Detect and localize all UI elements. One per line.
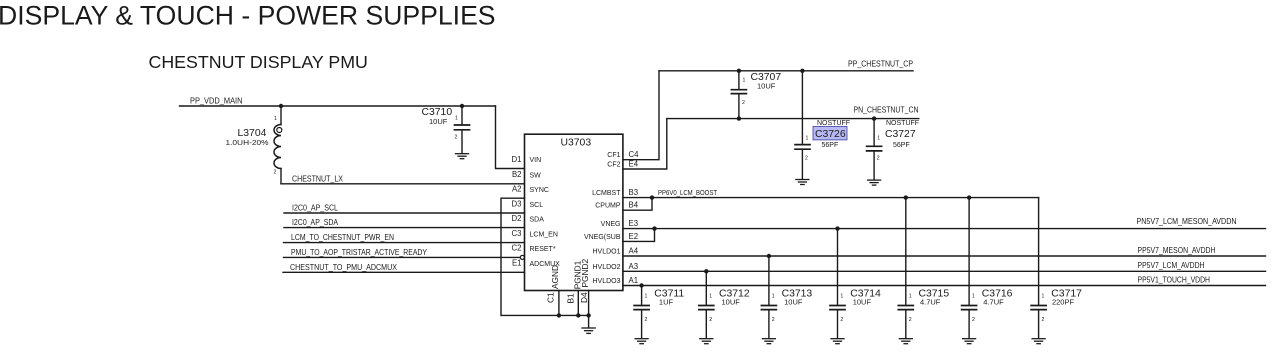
- svg-text:1: 1: [806, 136, 809, 142]
- svg-text:PP_VDD_MAIN: PP_VDD_MAIN: [190, 96, 243, 106]
- svg-text:56PF: 56PF: [893, 142, 910, 149]
- pin A2 SYNC: [501, 185, 589, 316]
- svg-text:C2: C2: [512, 244, 522, 253]
- wire PGND2 down: [588, 291, 590, 316]
- svg-text:NOSTUFF: NOSTUFF: [817, 120, 850, 127]
- capacitor C3707: [731, 71, 781, 119]
- svg-text:PN_CHESTNUT_CN: PN_CHESTNUT_CN: [854, 104, 919, 114]
- svg-text:2: 2: [909, 317, 912, 323]
- svg-text:PP_CHESTNUT_CP: PP_CHESTNUT_CP: [848, 58, 913, 68]
- svg-text:E3: E3: [629, 219, 639, 228]
- svg-text:B1: B1: [566, 293, 576, 304]
- node PMU_TO_AOP_TRISTAR_ACTIVE_READY: [284, 247, 521, 257]
- svg-text:U3703: U3703: [561, 138, 592, 149]
- svg-text:2: 2: [840, 317, 843, 323]
- svg-text:DISPLAY & TOUCH - POWER SUPPLI: DISPLAY & TOUCH - POWER SUPPLIES: [0, 1, 496, 31]
- svg-text:RESET*: RESET*: [530, 246, 556, 253]
- svg-text:10UF: 10UF: [784, 298, 803, 307]
- node PP_CHESTNUT_CP: [659, 58, 913, 73]
- svg-text:PMU_TO_AOP_TRISTAR_ACTIVE_READ: PMU_TO_AOP_TRISTAR_ACTIVE_READY: [291, 247, 427, 257]
- svg-text:E1: E1: [512, 259, 522, 268]
- wire ADCMUX: [283, 271, 525, 273]
- svg-text:AGND: AGND: [550, 265, 560, 289]
- op IC U3703: [525, 134, 623, 290]
- wire RESET: [284, 256, 521, 258]
- svg-text:1: 1: [455, 116, 458, 122]
- wire PN_CHESTNUT_CN: [667, 118, 919, 120]
- svg-text:B3: B3: [629, 188, 639, 197]
- svg-text:SDA: SDA: [530, 216, 545, 223]
- node CHESTNUT_TO_PMU_ADCMUX: [283, 262, 525, 272]
- svg-text:10UF: 10UF: [757, 81, 776, 90]
- svg-text:2: 2: [972, 317, 975, 323]
- svg-text:2: 2: [1042, 317, 1045, 323]
- ground under C3713: [762, 339, 775, 344]
- wire SYNC stub and down to gnd rail: [501, 198, 589, 315]
- svg-text:PP6V0_LCM_BOOST: PP6V0_LCM_BOOST: [658, 188, 717, 197]
- ground under C3710: [456, 154, 469, 159]
- inductor L3704: [226, 106, 282, 184]
- ground under C3712: [700, 339, 713, 344]
- svg-text:1: 1: [772, 294, 775, 300]
- svg-text:2: 2: [645, 317, 648, 323]
- bubble on RESET*: [520, 255, 524, 259]
- pin PGND2 D4 (bottom): [579, 259, 591, 318]
- svg-text:C3: C3: [512, 229, 522, 238]
- wire PP_CHESTNUT_CP: [659, 70, 913, 72]
- svg-text:SCL: SCL: [530, 202, 544, 209]
- svg-text:C3726: C3726: [815, 129, 846, 140]
- wire CPUMP up to boost: [623, 198, 652, 211]
- svg-text:2: 2: [274, 170, 277, 176]
- wire PP_VDD_MAIN horizontal: [180, 105, 496, 107]
- node PP_VDD_MAIN: [180, 96, 525, 169]
- svg-text:1: 1: [840, 294, 843, 300]
- svg-text:VNEG(SUB: VNEG(SUB: [584, 234, 621, 241]
- ground under C3716: [963, 339, 976, 344]
- svg-text:2: 2: [805, 156, 808, 162]
- svg-text:CPUMP: CPUMP: [595, 203, 621, 210]
- svg-text:1: 1: [645, 294, 648, 300]
- svg-text:B2: B2: [512, 170, 522, 179]
- svg-text:1: 1: [743, 78, 746, 84]
- pin D3 SCL: [512, 199, 544, 209]
- svg-text:56PF: 56PF: [822, 142, 839, 149]
- svg-text:B4: B4: [629, 201, 639, 210]
- wire LCM_EN: [284, 242, 525, 244]
- pin VNEG E3: [601, 219, 1266, 231]
- svg-text:LCM_EN: LCM_EN: [530, 231, 558, 238]
- pin C2 RESET*: [512, 244, 556, 260]
- svg-text:HVLDO2: HVLDO2: [592, 264, 620, 271]
- pin LCMBST B3 / node PP6V0_LCM_BOOST: [592, 188, 1039, 200]
- svg-text:LCM_TO_CHESTNUT_PWR_EN: LCM_TO_CHESTNUT_PWR_EN: [291, 232, 394, 242]
- svg-text:E2: E2: [629, 232, 639, 241]
- capacitor C3716: [962, 198, 1013, 339]
- svg-text:2: 2: [455, 135, 458, 141]
- wire AGND down: [558, 291, 560, 316]
- wire CF2 to PN_CHESTNUT_CN: [623, 119, 667, 169]
- svg-text:1: 1: [1042, 294, 1045, 300]
- svg-text:PN5V7_LCM_MESON_AVDDN: PN5V7_LCM_MESON_AVDDN: [1137, 216, 1237, 226]
- pin D1 VIN: [512, 155, 542, 164]
- svg-text:1.0UH-20%: 1.0UH-20%: [226, 138, 269, 147]
- capacitor C3717: [1031, 198, 1082, 339]
- capacitor C3715: [898, 198, 949, 339]
- pin B2 SW: [512, 170, 541, 180]
- node LCM_TO_CHESTNUT_PWR_EN: [284, 232, 525, 242]
- wire vertical to VIN: [496, 106, 525, 169]
- node I2C0_AP_SCL: [284, 203, 525, 213]
- svg-text:PP5V7_LCM_AVDDH: PP5V7_LCM_AVDDH: [1138, 260, 1205, 270]
- pin VNEG(SUB E2: [584, 229, 655, 242]
- wire CF1 to PP_CHESTNUT_CP: [623, 71, 659, 160]
- svg-text:C1: C1: [546, 292, 556, 303]
- wire SDA: [284, 227, 525, 229]
- pin CF1 C4: [607, 71, 659, 160]
- pin HVLDO3 A1: [592, 276, 1265, 288]
- junction at C3710 top: [460, 104, 464, 108]
- svg-text:A3: A3: [629, 262, 639, 271]
- junction at L3704 top: [279, 104, 283, 108]
- svg-text:220PF: 220PF: [1052, 298, 1075, 307]
- svg-text:CF1: CF1: [607, 152, 620, 159]
- svg-text:D2: D2: [512, 214, 522, 223]
- svg-text:10UF: 10UF: [429, 117, 448, 126]
- ground under C3715: [899, 339, 912, 344]
- svg-text:SW: SW: [530, 173, 542, 180]
- wire PP6V0_LCM_BOOST: [623, 197, 1039, 199]
- capacitor C3710: [422, 106, 470, 153]
- wire SCL: [284, 212, 525, 214]
- svg-text:VNEG: VNEG: [601, 221, 621, 228]
- capacitor C3711: [634, 286, 684, 339]
- svg-text:NOSTUFF: NOSTUFF: [886, 120, 919, 127]
- pin E1 ADCMUX: [512, 259, 560, 269]
- svg-text:1: 1: [909, 294, 912, 300]
- svg-text:LCMBST: LCMBST: [592, 190, 621, 197]
- wire CHESTNUT_LX: [281, 183, 525, 185]
- svg-text:CHESTNUT_TO_PMU_ADCMUX: CHESTNUT_TO_PMU_ADCMUX: [290, 262, 397, 272]
- capacitor C3712: [699, 271, 750, 338]
- svg-text:1: 1: [972, 294, 975, 300]
- capacitor C3726 (NOSTUFF, highlighted): [795, 71, 850, 179]
- ground under C3711: [635, 339, 648, 344]
- capacitor C3713: [761, 256, 812, 338]
- svg-text:PP5V1_TOUCH_VDDH: PP5V1_TOUCH_VDDH: [1138, 274, 1211, 284]
- svg-text:1: 1: [274, 116, 277, 122]
- svg-text:2: 2: [742, 100, 745, 106]
- ground under C3727: [868, 180, 881, 185]
- svg-text:A1: A1: [629, 276, 639, 285]
- node PN_CHESTNUT_CN: [667, 104, 919, 120]
- svg-text:1: 1: [877, 136, 880, 142]
- svg-text:I2C0_AP_SDA: I2C0_AP_SDA: [292, 217, 338, 227]
- svg-text:PP5V7_MESON_AVDDH: PP5V7_MESON_AVDDH: [1138, 245, 1216, 255]
- pin AGND C1 (bottom): [546, 265, 562, 318]
- svg-text:1UF: 1UF: [659, 298, 674, 307]
- svg-text:10UF: 10UF: [722, 298, 741, 307]
- wire VNEG / PN5V7 net: [623, 228, 1266, 230]
- svg-text:4.7UF: 4.7UF: [920, 298, 941, 307]
- wire VNEG(SUB up: [623, 229, 655, 242]
- svg-text:VIN: VIN: [530, 157, 542, 164]
- pin HVLDO2 A3: [592, 262, 1265, 274]
- svg-text:A2: A2: [512, 185, 522, 194]
- pin HVLDO1 A4: [592, 247, 1265, 259]
- svg-text:D1: D1: [512, 155, 522, 164]
- wire PGND1 down: [577, 291, 579, 316]
- svg-text:D4: D4: [579, 292, 589, 303]
- pin CF2 E4: [607, 119, 667, 169]
- svg-text:A4: A4: [629, 247, 639, 256]
- ground under PGND rail: [582, 315, 595, 333]
- svg-text:1: 1: [709, 294, 712, 300]
- svg-text:PGND2: PGND2: [580, 259, 590, 288]
- svg-text:SYNC: SYNC: [530, 187, 549, 194]
- pin CPUMP B4: [595, 198, 652, 211]
- wire PP5V7_MESON_AVDDH net: [623, 255, 1266, 257]
- svg-text:2: 2: [772, 317, 775, 323]
- capacitor C3727 (NOSTUFF): [867, 119, 919, 180]
- capacitor C3714: [830, 229, 881, 339]
- ground under C3726: [796, 180, 809, 185]
- svg-text:10UF: 10UF: [853, 298, 872, 307]
- pin D2 SDA: [512, 214, 545, 224]
- svg-text:D3: D3: [512, 199, 522, 208]
- svg-text:4.7UF: 4.7UF: [983, 298, 1004, 307]
- pin PGND1 B1 (bottom): [566, 260, 583, 317]
- svg-text:CHESTNUT DISPLAY PMU: CHESTNUT DISPLAY PMU: [149, 52, 368, 72]
- ground under C3714: [831, 339, 844, 344]
- wire PP5V7_LCM_AVDDH net: [623, 270, 1266, 272]
- svg-text:CF2: CF2: [607, 162, 620, 169]
- ground under C3717: [1032, 339, 1045, 344]
- svg-text:2: 2: [709, 317, 712, 323]
- svg-text:CHESTNUT_LX: CHESTNUT_LX: [292, 174, 343, 184]
- svg-text:HVLDO1: HVLDO1: [592, 249, 620, 256]
- svg-text:E4: E4: [629, 160, 639, 169]
- svg-text:C3727: C3727: [885, 129, 916, 140]
- svg-text:2: 2: [877, 156, 880, 162]
- node I2C0_AP_SDA: [284, 217, 525, 227]
- svg-text:HVLDO3: HVLDO3: [592, 278, 620, 285]
- pin C3 LCM_EN: [512, 229, 558, 239]
- svg-text:C4: C4: [629, 150, 640, 159]
- svg-text:I2C0_AP_SCL: I2C0_AP_SCL: [292, 203, 338, 213]
- node CHESTNUT_LX: [281, 174, 525, 184]
- wire PP5V1_TOUCH_VDDH net: [623, 285, 1266, 287]
